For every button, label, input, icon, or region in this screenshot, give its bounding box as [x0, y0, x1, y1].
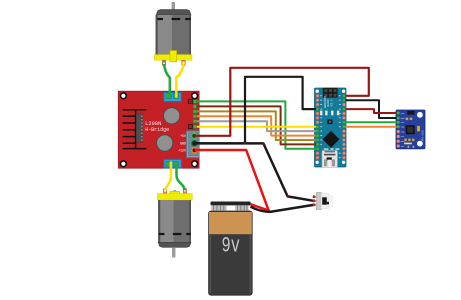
- wire orange IN4 L298N to Nano: [196, 116, 318, 135]
- capacitor C1: [164, 108, 180, 124]
- svg-text:+5V: +5V: [180, 134, 186, 138]
- bendpoint: [262, 143, 264, 145]
- bottom silkscreen marks: [324, 148, 340, 149]
- wire dark-red +5V to Nano VIN: [194, 68, 369, 136]
- Nano left pin pads: [316, 94, 319, 159]
- wire black battery negative to switch S1: [251, 205, 314, 212]
- wire orange Nano A4 to MPU SDA: [344, 126, 398, 128]
- axis marks: [407, 145, 414, 148]
- wire black GND to Nano GND: [195, 77, 318, 144]
- svg-text:V3.0: V3.0: [331, 99, 334, 106]
- mini-USB connector: [322, 151, 337, 168]
- Arduino Nano U2: [315, 88, 347, 167]
- mounting hole U2 top-right: [342, 90, 345, 93]
- MPU-6050 chip: [406, 125, 415, 134]
- motor terminal dots: [163, 62, 186, 192]
- crystal (yellow): [417, 126, 420, 131]
- switch S1 pin pads: [313, 196, 316, 207]
- L298N signal pin pads: [193, 100, 196, 129]
- svg-text:GND: GND: [180, 142, 186, 146]
- battery BT1 (9V): [209, 202, 253, 296]
- mounting hole U2 top-left: [316, 90, 319, 93]
- top IC component: [407, 111, 414, 115]
- svg-text:9v: 9v: [222, 234, 240, 259]
- MCU chip (diamond): [323, 131, 340, 148]
- labels +5V GND +12V: [178, 134, 186, 152]
- mounting hole U1 bottom-right: [191, 160, 198, 167]
- pin labels: [401, 112, 405, 148]
- wire gray ENA L298N to Nano: [196, 121, 318, 131]
- bottom bar component: [404, 143, 412, 145]
- wire dark-red Nano 5V to MPU VCC: [344, 109, 398, 113]
- reset button: [327, 119, 332, 124]
- L298N board U1: [118, 91, 199, 168]
- wire black GND to switch S1: [195, 143, 314, 200]
- wire maroon IN2 L298N to Nano: [196, 106, 318, 144]
- svg-text:MPU-6050: MPU-6050: [421, 129, 424, 141]
- wire green OUT4 to motor M2: [177, 163, 185, 191]
- mounting hole U1 bottom-left: [120, 160, 127, 167]
- wire yellow motor M1 to OUT2: [176, 63, 183, 97]
- wire green motor M1 to OUT1: [164, 63, 170, 97]
- mounting hole U2 bottom-right: [342, 161, 345, 164]
- wire black Nano GND to MPU GND: [344, 100, 398, 118]
- wire olive IN3 L298N to Nano: [196, 111, 318, 140]
- wire yellow OUT3 to motor M2: [165, 163, 171, 191]
- terminal block OUT1/OUT2 (top): [164, 92, 182, 101]
- capacitor C2: [157, 135, 173, 151]
- power screw terminal +5V/GND/+12V: [187, 131, 200, 158]
- silkscreen label L298N H-Bridge: [145, 121, 169, 133]
- mounting hole U3 bottom: [417, 141, 423, 147]
- wire green IN1 L298N to Nano D13: [196, 101, 318, 148]
- wire green Nano A5 to MPU SCL: [344, 121, 398, 123]
- ICSP header: [323, 88, 338, 98]
- small passives: [404, 118, 414, 141]
- mounting hole U1 top-right: [191, 92, 198, 99]
- switch S1: [313, 192, 333, 209]
- passive components row: [320, 111, 339, 116]
- mounting hole U1 top-left: [120, 92, 127, 99]
- motor M1 (top DC motor): [154, 2, 192, 65]
- MPU pin pads: [397, 111, 400, 147]
- MPU-6050 board U3: [396, 110, 425, 149]
- terminal block OUT3/OUT4 (bottom): [164, 159, 182, 168]
- svg-text:+12V: +12V: [178, 149, 186, 153]
- pin label silkscreen dots: [320, 95, 340, 158]
- Nano right pin pads: [342, 94, 345, 159]
- mounting hole U3 top: [417, 112, 423, 118]
- bendpoint: [244, 142, 246, 144]
- bendpoint: [286, 195, 288, 197]
- jumper JP2: [188, 124, 192, 128]
- wire yellow ENB L298N to Nano: [196, 126, 318, 128]
- left input header J1 comb: [123, 110, 147, 149]
- silkscreen ARDUINO NANO V3.0: [324, 96, 334, 108]
- jumper JP1: [188, 99, 192, 103]
- wire red +12V to battery positive: [195, 150, 269, 211]
- motor M2 (bottom DC motor): [158, 189, 193, 258]
- svg-text:H-Bridge: H-Bridge: [145, 127, 169, 133]
- mounting hole U2 bottom-left: [316, 161, 319, 164]
